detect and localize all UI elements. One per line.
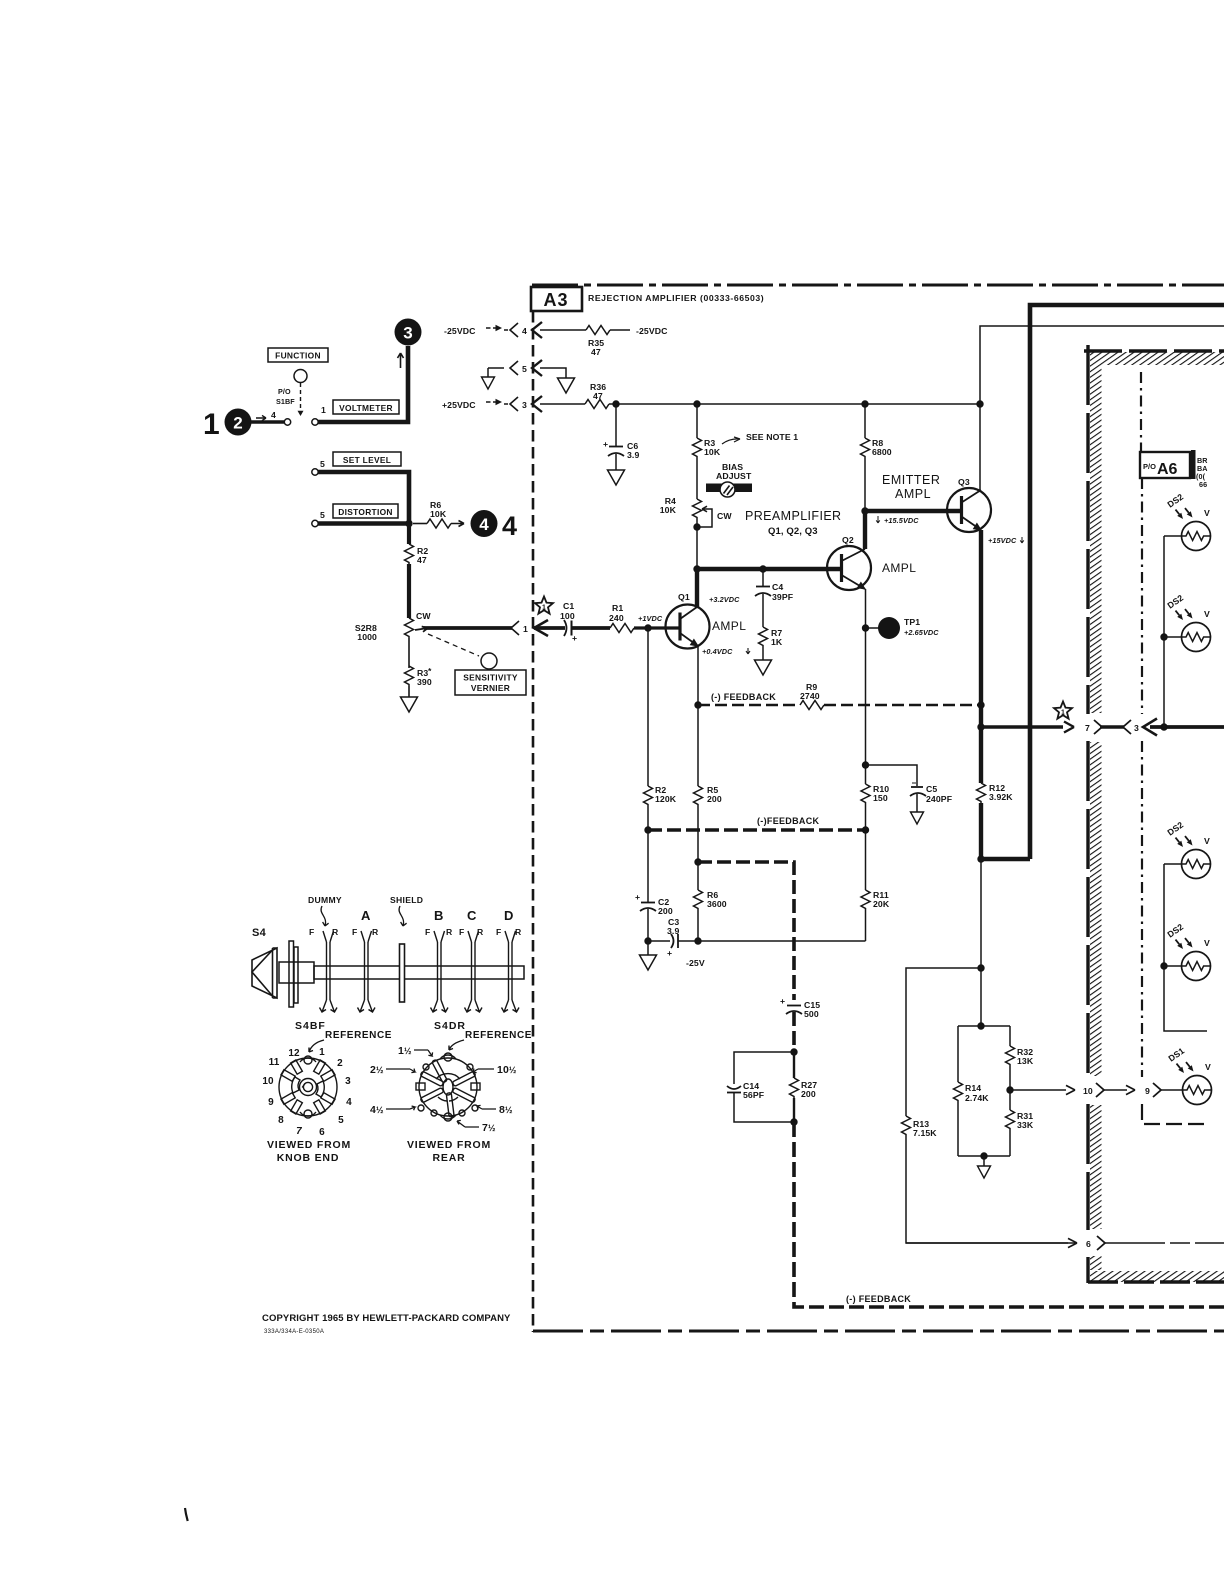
- svg-text:F: F: [352, 927, 357, 937]
- svg-text:AMPL: AMPL: [895, 487, 931, 501]
- switch contact left: [284, 419, 290, 425]
- svg-text:7: 7: [1085, 723, 1090, 733]
- wire to DS2 lamp 3: [1164, 863, 1182, 865]
- resistor R36 47: [585, 382, 609, 409]
- S4 shaft: [279, 962, 524, 983]
- svg-text:12: 12: [288, 1048, 300, 1059]
- svg-text:F: F: [496, 927, 501, 937]
- REFERENCE left with leader: [309, 1030, 392, 1052]
- node divider mid: [1006, 1086, 1013, 1093]
- svg-text:KNOB END: KNOB END: [277, 1152, 339, 1164]
- svg-text:+: +: [572, 633, 577, 643]
- resistor R13 7.15K: [902, 1116, 1077, 1243]
- resistor R6 3600: [694, 862, 727, 945]
- Q3 emitter thick wire down: [979, 530, 983, 727]
- potentiometer S2R8 1000: [355, 611, 432, 668]
- test point TP1: [866, 617, 940, 639]
- svg-text:VIEWED FROM: VIEWED FROM: [267, 1139, 351, 1151]
- svg-text:CW: CW: [416, 611, 431, 621]
- svg-text:R: R: [477, 927, 484, 937]
- svg-text:9: 9: [1145, 1086, 1150, 1096]
- resistor R5 200: [694, 705, 722, 862]
- +15VDC label: [988, 536, 1024, 545]
- svg-text:TP1: TP1: [904, 617, 920, 627]
- wire to R35: [540, 329, 586, 331]
- VOLTMETER label box: [333, 400, 399, 414]
- svg-text:REJECTION AMPLIFIER (00333-665: REJECTION AMPLIFIER (00333-66503): [588, 293, 764, 303]
- svg-text:VOLTMETER: VOLTMETER: [339, 403, 393, 413]
- lamp DS1: [1166, 1046, 1211, 1105]
- svg-text:8: 8: [278, 1115, 284, 1126]
- svg-text:150: 150: [873, 793, 888, 803]
- node R3 top: [693, 400, 700, 407]
- svg-text:33K: 33K: [1017, 1120, 1034, 1130]
- svg-text:DUMMY: DUMMY: [308, 895, 342, 905]
- svg-text:3.92K: 3.92K: [989, 792, 1013, 802]
- node lamp column: [1160, 723, 1167, 730]
- node divider bottom and ground: [978, 1152, 991, 1178]
- svg-text:C: C: [467, 908, 477, 923]
- pin 10 wire with arrow: [1010, 1089, 1066, 1091]
- svg-text:240: 240: [609, 613, 624, 623]
- svg-text:VIEWED FROM: VIEWED FROM: [407, 1139, 491, 1151]
- wire to R36: [540, 403, 585, 405]
- P/O A6 label box: [1140, 450, 1208, 489]
- node bus bottom: [977, 855, 984, 862]
- svg-text:+2.65VDC: +2.65VDC: [904, 628, 939, 637]
- capacitor C5 240PF: [866, 765, 953, 824]
- svg-text:R: R: [446, 927, 453, 937]
- svg-text:R: R: [372, 927, 379, 937]
- svg-text:3.9: 3.9: [667, 926, 679, 936]
- capacitor C1 100: [560, 601, 577, 643]
- wire from 2 to switch contact: [251, 420, 284, 424]
- thick wire base rail to Q2: [697, 567, 841, 571]
- svg-text:13K: 13K: [1017, 1056, 1034, 1066]
- svg-text:+1VDC: +1VDC: [638, 614, 663, 623]
- resistor R2 47: [405, 544, 429, 565]
- callout circle 2: [225, 409, 252, 436]
- pin 3 connector: [504, 396, 542, 412]
- capacitor C2 200: [635, 830, 673, 945]
- svg-text:6: 6: [319, 1127, 325, 1138]
- potentiometer R4 10K: [660, 458, 733, 569]
- switch contact right: [312, 419, 318, 425]
- A3 border: bottom edge: [533, 1330, 1224, 1333]
- wire pin1 to C1: [534, 626, 565, 630]
- thick bus wire top right: [1030, 305, 1224, 859]
- svg-text:(-) FEEDBACK: (-) FEEDBACK: [846, 1294, 911, 1304]
- thick wire to Q3 base: [865, 509, 960, 513]
- svg-text:390: 390: [417, 677, 432, 687]
- svg-text:Q3: Q3: [958, 477, 970, 487]
- REFERENCE right with leader: [449, 1030, 532, 1050]
- svg-text:4: 4: [479, 515, 489, 534]
- svg-text:P/O: P/O: [1143, 462, 1156, 471]
- F R labels: [309, 927, 522, 937]
- wire set level: [318, 472, 409, 524]
- wiper wire to pin 1: [424, 626, 512, 630]
- sensitivity vernier shaft circle: [481, 653, 497, 669]
- A3 label box: [531, 287, 582, 311]
- svg-text:AMPL: AMPL: [882, 561, 916, 575]
- svg-text:B: B: [434, 908, 443, 923]
- svg-text:7.15K: 7.15K: [913, 1128, 937, 1138]
- VIEWED FROM REAR: [407, 1139, 491, 1164]
- svg-text:120K: 120K: [655, 794, 677, 804]
- svg-text:FUNCTION: FUNCTION: [275, 351, 321, 361]
- svg-text:V: V: [1205, 1062, 1211, 1072]
- svg-text:200: 200: [801, 1089, 816, 1099]
- ground left of pin5: [482, 368, 495, 389]
- wire C1 to R1: [572, 626, 611, 630]
- FUNCTION label box: [268, 348, 328, 362]
- function shaft circle: [294, 370, 307, 383]
- svg-text:1½: 1½: [398, 1045, 412, 1057]
- svg-text:A6: A6: [1157, 461, 1178, 478]
- svg-text:*: *: [428, 666, 432, 676]
- svg-text:500: 500: [804, 1009, 819, 1019]
- wire to DS2 lamp 1: [1164, 535, 1182, 537]
- +15.5VDC label: [876, 516, 919, 525]
- svg-text:+25VDC: +25VDC: [442, 400, 476, 410]
- lamp column wire lower: [1164, 864, 1207, 1031]
- SHIELD label with leader: [390, 895, 423, 926]
- svg-text:2: 2: [337, 1058, 343, 1069]
- svg-text:1K: 1K: [771, 637, 783, 647]
- wire branch left to R13: [906, 968, 981, 1116]
- DISTORTION label box: [333, 504, 398, 518]
- svg-text:SEE NOTE 1: SEE NOTE 1: [746, 432, 798, 442]
- svg-text:47: 47: [417, 555, 427, 565]
- svg-text:3: 3: [1134, 723, 1139, 733]
- EMITTER AMPL label: [882, 473, 940, 501]
- wire base node down: [647, 628, 649, 786]
- svg-text:1000: 1000: [357, 632, 377, 642]
- A6 shield border: left band: [1088, 345, 1102, 1283]
- svg-text:AMPL: AMPL: [712, 619, 746, 633]
- svg-text:C4: C4: [772, 582, 783, 592]
- callout circle 3: [395, 319, 422, 346]
- node C4 tap: [759, 565, 766, 572]
- wire to DS2 lamp 2: [1164, 636, 1182, 638]
- node junction: [405, 520, 412, 527]
- divider box R14 R32 R31: [958, 1026, 1010, 1156]
- svg-text:S4BF: S4BF: [295, 1020, 326, 1032]
- dashed arrow pin3: [486, 401, 496, 403]
- lamp column wire upper: [1163, 536, 1165, 727]
- svg-text:Q1, Q2, Q3: Q1, Q2, Q3: [768, 526, 818, 537]
- ground below R3: [401, 686, 418, 712]
- BIAS ADJUST screwdriver slot: [706, 462, 752, 497]
- node TP1: [862, 624, 869, 631]
- (-) FEEDBACK lower line: [644, 816, 869, 834]
- pin 4 connector: [504, 322, 542, 338]
- svg-text:1: 1: [321, 405, 326, 415]
- callout circle 4: [471, 510, 498, 537]
- svg-text:REAR: REAR: [433, 1152, 466, 1164]
- shield plate: [400, 944, 405, 1002]
- svg-text:+3.2VDC: +3.2VDC: [709, 595, 740, 604]
- DUMMY label with leader: [308, 895, 342, 926]
- wafer A: [358, 931, 376, 1012]
- svg-text:1: 1: [1061, 710, 1065, 717]
- node R8 top: [861, 400, 868, 407]
- DISTORTION terminal: [312, 510, 325, 527]
- (-) FEEDBACK upper line R9: [694, 682, 984, 710]
- ground below R7: [755, 647, 772, 675]
- svg-text:VERNIER: VERNIER: [471, 683, 510, 693]
- A6 shield border: top band: [1084, 351, 1224, 365]
- resistor R3* 390: [405, 666, 433, 687]
- node branch to R13: [977, 964, 984, 971]
- svg-text:100: 100: [560, 611, 575, 621]
- resistor R14 2.74K: [954, 1082, 990, 1103]
- svg-text:D: D: [504, 908, 513, 923]
- svg-text:5: 5: [320, 510, 325, 520]
- node base rail: [693, 565, 700, 572]
- node R4 bottom: [693, 523, 700, 530]
- ground right of pin5: [540, 368, 575, 393]
- pin 5 connector: [488, 360, 542, 376]
- svg-text:56PF: 56PF: [743, 1090, 764, 1100]
- resistor R31 33K: [1006, 1110, 1034, 1130]
- A6 inner dash-dot boundary: [1141, 372, 1205, 1124]
- svg-text:4: 4: [522, 326, 527, 336]
- svg-text:5: 5: [320, 459, 325, 469]
- wire and -25VDC label: [610, 326, 668, 336]
- Q2 collector thick wire up: [863, 511, 867, 549]
- svg-text:4½: 4½: [370, 1104, 384, 1116]
- wafer C: [465, 931, 483, 1012]
- svg-text:39PF: 39PF: [772, 592, 793, 602]
- svg-text:20K: 20K: [873, 899, 890, 909]
- star ref 1 right: [1054, 702, 1072, 719]
- svg-text:R1: R1: [612, 603, 623, 613]
- svg-text:10: 10: [1083, 1086, 1093, 1096]
- S4 knob: [252, 948, 277, 998]
- wafer B: [431, 931, 449, 1012]
- A3 border: left edge: [532, 311, 535, 1332]
- svg-text:-25V: -25V: [686, 958, 705, 968]
- A6 shield border: bottom band: [1088, 1271, 1224, 1282]
- svg-text:2: 2: [233, 414, 242, 433]
- svg-text:11: 11: [269, 1057, 280, 1068]
- resistor R1 240: [609, 603, 634, 633]
- svg-text:S4DR: S4DR: [434, 1020, 466, 1032]
- svg-text:10K: 10K: [660, 505, 677, 515]
- capacitor C15 500: [780, 996, 820, 1056]
- A3 module dash-dot border: top edge: [532, 284, 1224, 287]
- sensitivity vernier dashed link: [428, 634, 479, 656]
- up arrow: [398, 353, 404, 368]
- svg-text:V: V: [1204, 938, 1210, 948]
- svg-text:5: 5: [338, 1115, 344, 1126]
- svg-text:S1BF: S1BF: [276, 397, 295, 406]
- svg-text:9: 9: [268, 1097, 274, 1108]
- svg-text:R14: R14: [965, 1083, 981, 1093]
- svg-text:A3: A3: [543, 290, 568, 310]
- lamp DS2 (2): [1165, 593, 1210, 652]
- resistor R7 1K: [759, 627, 783, 647]
- svg-text:CW: CW: [717, 511, 732, 521]
- wafer D: [502, 931, 520, 1012]
- svg-text:Q2: Q2: [842, 535, 854, 545]
- mechanical link dashed: [300, 383, 302, 410]
- svg-text:6800: 6800: [872, 447, 892, 457]
- resistor R2 120K: [644, 785, 677, 830]
- thin wire to +25V rail off-page: [980, 326, 1224, 490]
- wire pin10 to pin9 with arrow: [1104, 1089, 1127, 1091]
- svg-text:3: 3: [345, 1076, 351, 1087]
- dashed arrow pin4: [486, 327, 496, 329]
- capacitor C4 39PF: [755, 569, 793, 627]
- svg-text:(-)FEEDBACK: (-)FEEDBACK: [757, 816, 819, 826]
- node lamp 4: [1160, 962, 1167, 969]
- svg-text:S4: S4: [252, 927, 267, 939]
- svg-text:6: 6: [1086, 1239, 1091, 1249]
- node lamp 2: [1160, 633, 1167, 640]
- svg-text:10½: 10½: [497, 1064, 517, 1076]
- wire down to divider: [980, 859, 982, 1026]
- node Q2 collector / R8: [861, 507, 868, 514]
- S4DR callouts: [370, 1045, 517, 1134]
- rotary S4DR body: [416, 1053, 480, 1121]
- svg-text:5: 5: [522, 364, 527, 374]
- svg-text:REFERENCE: REFERENCE: [325, 1030, 392, 1041]
- svg-text:1: 1: [203, 408, 220, 441]
- svg-text:ADJUST: ADJUST: [716, 471, 752, 481]
- capacitor C6 3.9: [603, 404, 639, 485]
- node divider top: [977, 1022, 984, 1029]
- (-) FEEDBACK branch line: [694, 858, 794, 1000]
- thick bus bottom jog: [981, 857, 1030, 862]
- wire pin7 to pin3: [1100, 725, 1124, 728]
- wire distortion: [318, 521, 409, 526]
- svg-text:REFERENCE: REFERENCE: [465, 1030, 532, 1041]
- svg-text:EMITTER: EMITTER: [882, 473, 940, 487]
- svg-text:2.74K: 2.74K: [965, 1093, 989, 1103]
- svg-text:COPYRIGHT 1965 BY HEWLETT-PACK: COPYRIGHT 1965 BY HEWLETT-PACKARD COMPAN…: [262, 1313, 511, 1324]
- svg-text:66: 66: [1199, 480, 1207, 489]
- arrow and pin 4 label: [256, 410, 276, 421]
- svg-text:+: +: [780, 996, 785, 1006]
- svg-text:3600: 3600: [707, 899, 727, 909]
- transistor Q2: [827, 535, 916, 590]
- svg-text:240PF: 240PF: [926, 794, 952, 804]
- SET LEVEL terminal: [312, 459, 325, 475]
- thick wire pin3 to lamps: [1150, 725, 1224, 729]
- svg-text:47: 47: [591, 347, 601, 357]
- (-) FEEDBACK bottom run: [794, 1122, 1224, 1307]
- svg-text:4: 4: [271, 410, 276, 420]
- svg-text:4: 4: [502, 511, 517, 541]
- svg-text:F: F: [309, 927, 314, 937]
- pin 10 connector: [1083, 1083, 1104, 1097]
- svg-text:V: V: [1204, 609, 1210, 619]
- resistor R32 13K: [1006, 1046, 1034, 1066]
- svg-text:SET LEVEL: SET LEVEL: [343, 455, 391, 465]
- PREAMPLIFIER title: [745, 509, 842, 537]
- see note 1 leader: [722, 432, 798, 444]
- svg-text:1: 1: [319, 1047, 325, 1058]
- wire pin9 to DS1: [1161, 1089, 1182, 1091]
- node feedback tap at base: [644, 624, 651, 631]
- svg-text:+0.4VDC: +0.4VDC: [702, 647, 733, 656]
- svg-text:7½: 7½: [482, 1122, 496, 1134]
- svg-text:3: 3: [522, 400, 527, 410]
- Q2 emitter wire down: [865, 589, 867, 784]
- pin 7 wire with arrow: [981, 725, 1063, 729]
- svg-text:7: 7: [296, 1126, 302, 1137]
- resistor R35 47: [586, 326, 610, 358]
- svg-text:47: 47: [593, 391, 603, 401]
- svg-text:SHIELD: SHIELD: [390, 895, 423, 905]
- wire R1 to Q1 base: [634, 626, 680, 629]
- ground below C2/C3: [640, 941, 657, 970]
- Q1 emitter wire down: [697, 646, 699, 705]
- svg-text:+: +: [603, 439, 608, 449]
- svg-text:(-) FEEDBACK: (-) FEEDBACK: [711, 692, 776, 702]
- svg-text:Q1: Q1: [678, 592, 690, 602]
- svg-text:200: 200: [658, 906, 673, 916]
- P/O S1BF label: [276, 387, 295, 406]
- star ref 1 left: [535, 597, 553, 614]
- svg-text:V: V: [1204, 836, 1210, 846]
- svg-text:200: 200: [707, 794, 722, 804]
- pin 3 connector: [1123, 719, 1157, 736]
- wire to pot: [407, 564, 411, 618]
- svg-text:4: 4: [346, 1097, 352, 1108]
- svg-text:C1: C1: [563, 601, 574, 611]
- resistor R12 3.92K: [977, 727, 1014, 859]
- wire contact to voltmeter corner up to 3: [318, 346, 408, 422]
- SENSITIVITY VERNIER label box: [455, 670, 526, 695]
- wire to DS2 lamp 4: [1164, 965, 1182, 967]
- svg-text:2½: 2½: [370, 1064, 384, 1076]
- lamp DS2 (4): [1165, 922, 1210, 981]
- pin 7 connector: [1085, 720, 1102, 734]
- rotary S4BF numbers: [262, 1047, 352, 1138]
- transistor Q3: [947, 477, 991, 532]
- svg-text:10K: 10K: [704, 447, 721, 457]
- svg-text:8½: 8½: [499, 1104, 513, 1116]
- wafer DUMMY: [320, 931, 338, 1012]
- svg-text:+15VDC: +15VDC: [988, 536, 1017, 545]
- resistor R11 20K: [861, 830, 890, 941]
- VIEWED FROM KNOB END: [267, 1139, 351, 1164]
- capacitor C14 56PF: [727, 1052, 794, 1122]
- resistor R27 200: [790, 1052, 818, 1126]
- +25V rail: [609, 403, 980, 405]
- svg-text:R: R: [332, 927, 339, 937]
- resistor R8 6800: [861, 404, 892, 511]
- pin 1 connector: [511, 620, 548, 636]
- transistor Q1: [666, 592, 710, 649]
- resistor R6 10K with arrow to 4: [413, 500, 464, 528]
- lamp DS2 (3): [1165, 820, 1210, 879]
- node Q3 collector rail: [976, 400, 983, 407]
- capacitor C3 3.9: [648, 917, 866, 958]
- svg-text:2740: 2740: [800, 691, 820, 701]
- svg-text:1: 1: [542, 605, 546, 612]
- pin 6 wire with arrow: [906, 1242, 1068, 1244]
- svg-text:-25VDC: -25VDC: [636, 326, 668, 336]
- svg-text:R: R: [515, 927, 522, 937]
- svg-text:F: F: [425, 927, 430, 937]
- Q1 labels: [702, 595, 750, 656]
- svg-text:+: +: [635, 892, 640, 902]
